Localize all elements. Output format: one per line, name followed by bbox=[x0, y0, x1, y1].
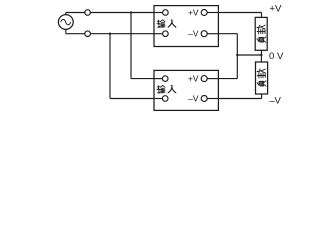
wire: vertical branch x=110 to lower module bottom input bbox=[109, 34, 111, 99]
terminal: U1 input top bbox=[163, 10, 169, 16]
terminal: U2 +V output bbox=[201, 76, 207, 82]
terminal: U2 input bottom bbox=[162, 96, 168, 102]
svg-text:+V: +V bbox=[188, 74, 199, 84]
label 输入 (U1 input) bbox=[157, 20, 176, 27]
power module U1 (upper) body bbox=[154, 6, 218, 47]
junction dot at top branch (131,12.5) bbox=[130, 11, 132, 13]
svg-text:+V: +V bbox=[188, 7, 199, 17]
label 负载 (RL2, rotated) bbox=[257, 69, 266, 86]
wire: U1 -V output toward 0V bus bbox=[218, 33, 237, 35]
AC source G1 circle bbox=[58, 15, 73, 30]
terminal: AC output top bbox=[85, 10, 91, 16]
terminal: U2 input top bbox=[162, 76, 168, 82]
terminal: AC output bottom bbox=[85, 31, 91, 37]
svg-text:+V: +V bbox=[269, 4, 282, 15]
wire: top wire from AC to upper module input bbox=[66, 12, 154, 14]
wire: U1 input stub top bbox=[154, 12, 163, 14]
wire: U1 -V internal stub bbox=[207, 33, 218, 35]
svg-text:0 V: 0 V bbox=[269, 51, 284, 62]
power module U2 (lower) body bbox=[154, 70, 218, 110]
wire: horizontal into lower module bottom input bbox=[110, 98, 154, 100]
wire: U1 input stub bottom bbox=[154, 33, 163, 35]
terminal: U2 -V output bbox=[201, 96, 207, 102]
label 负载 (RL1, rotated) bbox=[257, 25, 266, 42]
label 输入 (U2 input) bbox=[157, 85, 176, 92]
AC source G1 sine wave bbox=[61, 19, 71, 24]
terminal: U1 -V output bbox=[201, 31, 207, 37]
wire: U2 -V output to lower load bottom bbox=[218, 98, 261, 100]
load resistor RL2 (lower) body bbox=[256, 62, 268, 94]
wire: upper load bottom to lower load top through 0V node bbox=[260, 50, 262, 62]
load resistor RL1 (upper) body bbox=[255, 17, 267, 50]
svg-text:–V: –V bbox=[188, 93, 199, 103]
wire: U2 +V internal stub bbox=[207, 78, 218, 80]
wire: AC top stub bbox=[65, 13, 67, 15]
junction dot on 0V bus (237.3,55) bbox=[236, 54, 238, 56]
wire: horizontal into lower module top input bbox=[131, 78, 154, 80]
wire: U2 input stub bottom bbox=[154, 98, 162, 100]
junction dot at bottom branch (110,33.7) bbox=[109, 33, 111, 35]
wire: lower load bottom stub bbox=[261, 94, 263, 99]
junction dot at loads 0V node (261.4,55) bbox=[260, 54, 262, 56]
wire: 0V horizontal to loads bbox=[237, 54, 261, 56]
svg-text:–V: –V bbox=[269, 95, 281, 106]
terminal: U1 input bottom bbox=[163, 31, 169, 37]
wire: U2 +V output toward 0V bus bbox=[218, 78, 237, 80]
wire: AC bottom stub bbox=[65, 29, 67, 33]
wire: vertical branch x=131 to lower module top input bbox=[130, 13, 132, 79]
wire: U1 +V output to bend bbox=[218, 12, 261, 14]
wire: U2 input stub top bbox=[154, 78, 162, 80]
svg-text:–V: –V bbox=[188, 29, 199, 39]
wire: U1 +V internal stub bbox=[207, 12, 218, 14]
wire: U2 -V internal stub bbox=[207, 98, 218, 100]
terminal: U1 +V output bbox=[201, 10, 207, 16]
wire: 0V vertical bus x=237.3 bbox=[236, 34, 238, 79]
wire: bottom wire from AC to upper module input bbox=[66, 33, 154, 35]
wire: drop into upper load bbox=[261, 13, 263, 18]
